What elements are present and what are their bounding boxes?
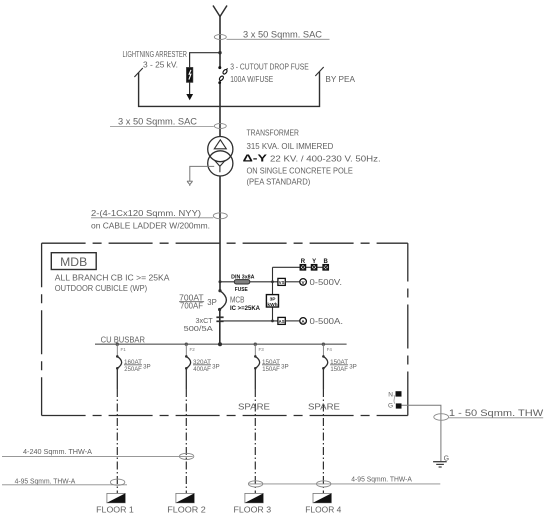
wire: busbar to breaker F4 [322, 344, 324, 356]
svg-text:F4: F4 [327, 347, 333, 352]
wire: G bar to ground electrode [402, 405, 441, 461]
svg-text:500/5A: 500/5A [184, 326, 214, 333]
svg-text:Y: Y [312, 259, 316, 265]
svg-text:ON SINGLE CONCRETE POLE: ON SINGLE CONCRETE POLE [247, 167, 353, 176]
wire: busbar to breaker F2 [185, 344, 187, 356]
leader line NYY [91, 217, 213, 219]
current transformer 3xCT [216, 317, 223, 321]
MDB name plate box [51, 253, 96, 270]
leader line 4-240 [2, 455, 193, 457]
svg-text:3 - 25 kV.: 3 - 25 kV. [143, 61, 178, 70]
svg-text:OUTDOOR CUBICLE (WP): OUTDOOR CUBICLE (WP) [55, 284, 148, 293]
node: riser-ammeter junction [271, 320, 274, 323]
label 150AT/150AF 3P [262, 359, 289, 373]
branch breaker F2 (320AT/400AF 3P) [185, 355, 191, 370]
transformer T1 (wye winding) [208, 151, 233, 176]
feeder arrow F3 [245, 493, 263, 502]
svg-text:1 - 50 Sqmm. THW: 1 - 50 Sqmm. THW [449, 408, 544, 418]
voltmeter selector switch VS [278, 278, 285, 285]
wire: MCB to busbar [219, 310, 221, 345]
svg-text:SPARE: SPARE [238, 403, 270, 412]
svg-text:F2: F2 [190, 347, 196, 352]
svg-text:FUSE: FUSE [235, 287, 249, 293]
branch breaker F4 (150AT/150AF 3P) [322, 355, 328, 370]
wire: feeder F2 (dash-dot) [185, 389, 187, 493]
svg-text:3P: 3P [281, 363, 289, 370]
leader line THW [449, 417, 543, 419]
feeder arrow F1 [107, 493, 125, 502]
svg-text:SPARE: SPARE [308, 403, 340, 412]
svg-text:Δ-Y: Δ-Y [243, 152, 267, 164]
svg-text:FLOOR 1: FLOOR 1 [96, 505, 134, 515]
svg-text:VS: VS [279, 280, 285, 285]
svg-text:FLOOR 4: FLOOR 4 [305, 505, 341, 515]
svg-text:AS: AS [279, 319, 285, 324]
leader line 4-95 left [2, 484, 127, 486]
neutral bar N [388, 391, 401, 398]
cutout drop fuse [218, 66, 227, 84]
leader line 3x50 SAC lower [110, 126, 214, 128]
label 700AT / 700AF 3P [179, 293, 217, 310]
node: main line to busbar [218, 342, 222, 346]
branch breaker F1 (160AT/250AF 3P) [116, 355, 122, 370]
svg-text:0-500V.: 0-500V. [310, 277, 343, 287]
cable marker ellipse branch F3 [248, 481, 262, 487]
ammeter selector switch AS [278, 317, 285, 324]
wire: metering fuse line [220, 281, 278, 283]
antenna / incoming overhead line [213, 6, 227, 17]
svg-text:3 - CUTOUT DROP FUSE: 3 - CUTOUT DROP FUSE [230, 63, 309, 72]
node: riser-fuse line junction [271, 280, 274, 283]
svg-text:IC >=25KA: IC >=25KA [230, 306, 261, 312]
wire: CT to ammeter line [221, 320, 278, 322]
wire: pilot lamp bus [273, 266, 328, 268]
ground electrode symbol [433, 462, 447, 467]
svg-text:F3: F3 [259, 347, 265, 352]
svg-text:CU BUSBAR: CU BUSBAR [101, 335, 146, 344]
wire: feeder F3 (dash-dot) [254, 389, 256, 493]
PEA boundary bracket [134, 67, 323, 106]
wire: transformer to MDB [219, 176, 221, 291]
svg-text:B: B [324, 259, 329, 265]
wire: breaker F4 feeder (solid) [322, 368, 324, 389]
svg-text:3P: 3P [207, 298, 217, 307]
MDB enclosure (dashed) [42, 243, 408, 415]
pilot lamp B [323, 265, 328, 270]
svg-text:315 KVA. OIL IMMERED: 315 KVA. OIL IMMERED [247, 142, 334, 151]
svg-text:ALL BRANCH CB IC >= 25KA: ALL BRANCH CB IC >= 25KA [55, 274, 170, 283]
wire AS to ammeter [285, 320, 300, 322]
feeder arrow F4 [313, 493, 331, 502]
svg-text:F1: F1 [121, 347, 127, 352]
svg-text:2-(4-1Cx120 Sqmm. NYY): 2-(4-1Cx120 Sqmm. NYY) [91, 209, 201, 218]
svg-text:DIN 3x8A: DIN 3x8A [231, 274, 255, 280]
fuse DIN 3x8A [234, 280, 250, 284]
svg-text:0-500A.: 0-500A. [310, 316, 344, 326]
kWh meter (3P) [266, 295, 278, 308]
node: busbar tap F1 [116, 343, 119, 346]
svg-text:150AF: 150AF [330, 366, 348, 373]
ground bar G [388, 403, 402, 410]
cable marker ellipse branch F1 [110, 479, 124, 485]
svg-text:4-95 Sqmm. THW-A: 4-95 Sqmm. THW-A [15, 478, 76, 485]
node: busbar tap F4 [322, 343, 325, 346]
wire: lamp riser / kWh riser [272, 267, 274, 321]
svg-text:LIGHTNING ARRESTER: LIGHTNING ARRESTER [123, 50, 188, 59]
svg-text:BY PEA: BY PEA [325, 75, 355, 84]
svg-text:100A W/FUSE: 100A W/FUSE [230, 75, 273, 84]
wire VS to voltmeter [285, 281, 300, 283]
svg-text:150AF: 150AF [262, 366, 280, 373]
wire: breaker F3 feeder (solid) [254, 368, 256, 389]
cable marker ellipse NYY [213, 213, 227, 219]
svg-text:on CABLE LADDER W/200mm.: on CABLE LADDER W/200mm. [91, 221, 210, 230]
cable marker ellipse (3x50 SAC lower) [214, 124, 226, 129]
svg-text:3P: 3P [143, 363, 151, 370]
wire: busbar to breaker F1 [116, 344, 118, 356]
node: lightning arrester tap [218, 51, 221, 54]
svg-text:4-95 Sqmm. THW-A: 4-95 Sqmm. THW-A [351, 477, 412, 484]
N-G bonding jumper [394, 395, 395, 403]
transformer T1 (delta winding) [208, 137, 233, 162]
label 320AT/400AF 3P [193, 359, 220, 373]
wire: antenna to cutout fuse [219, 17, 221, 68]
wye symbol [215, 160, 226, 172]
feeder arrow F2 [176, 493, 194, 502]
svg-text:N: N [388, 391, 393, 398]
copper busbar [95, 343, 347, 345]
leader line 4-95 right [248, 483, 440, 485]
wire: breaker F2 feeder (solid) [185, 368, 187, 389]
pilot lamp R [300, 265, 305, 270]
wire: breaker F1 feeder (solid) [116, 368, 118, 389]
svg-text:700AF: 700AF [180, 302, 203, 311]
svg-text:FLOOR 3: FLOOR 3 [234, 505, 272, 515]
lightning arrester LA (3 - 25 kV) [186, 68, 193, 101]
branch breaker F3 (150AT/150AF 3P) [254, 355, 260, 370]
svg-text:(PEA STANDARD): (PEA STANDARD) [247, 177, 311, 186]
svg-text:FLOOR 2: FLOOR 2 [167, 505, 206, 515]
svg-text:G: G [388, 403, 393, 410]
transformer neutral ground wire [190, 166, 214, 181]
cable marker ellipse (3x50 SAC upper) [214, 35, 226, 40]
svg-text:3P: 3P [349, 363, 357, 370]
svg-text:kWh: kWh [267, 302, 277, 308]
svg-text:TRANSFORMER: TRANSFORMER [247, 129, 300, 138]
wire: busbar to breaker F3 [254, 344, 256, 356]
transformer ground arrow [187, 181, 193, 186]
wire: feeder F4 (dash-dot) [322, 389, 324, 493]
svg-text:R: R [301, 259, 306, 265]
cable marker ellipse branch F4 [317, 481, 331, 487]
svg-text:3xCT: 3xCT [196, 318, 214, 325]
svg-text:4-240 Sqmm. THW-A: 4-240 Sqmm. THW-A [23, 449, 92, 456]
svg-text:MCB: MCB [230, 296, 245, 305]
wire: feeder F1 (dash-dot) [116, 389, 118, 493]
ammeter A [300, 318, 307, 325]
wire: cutout fuse to transformer [219, 84, 221, 137]
svg-text:MDB: MDB [60, 255, 87, 269]
delta symbol [214, 140, 226, 149]
node: busbar tap F2 [185, 343, 188, 346]
svg-text:250AF: 250AF [124, 366, 142, 373]
svg-text:3 x 50 Sqmm. SAC: 3 x 50 Sqmm. SAC [243, 30, 323, 40]
label 160AT/250AF 3P [124, 359, 151, 373]
svg-text:22 KV. / 400-230 V. 50Hz.: 22 KV. / 400-230 V. 50Hz. [270, 154, 381, 163]
leader line 3x50 SAC upper [227, 38, 330, 40]
svg-text:3P: 3P [212, 363, 220, 370]
cable marker ellipse THW [434, 414, 449, 421]
node: metering tap on main [219, 280, 222, 283]
voltmeter V [300, 279, 307, 286]
label 150AT/150AF 3P [330, 359, 357, 373]
svg-text:3 x 50 Sqmm. SAC: 3 x 50 Sqmm. SAC [118, 116, 198, 126]
main breaker MCB 700AT [218, 289, 226, 311]
wire: tap to lightning arrester [190, 53, 220, 68]
svg-text:400AF: 400AF [193, 366, 211, 373]
svg-text:3P: 3P [270, 297, 277, 303]
node: busbar tap F3 [254, 343, 257, 346]
cable marker ellipse branch F2 [179, 453, 193, 459]
pilot lamp Y [312, 265, 317, 270]
